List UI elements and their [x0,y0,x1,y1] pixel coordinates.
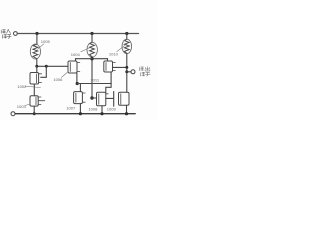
wire: mid horizontal 1006-1011 [76,58,108,60]
wire: 1006 drain bend [75,59,77,61]
transistor 1011 [104,59,116,72]
label 1005 [37,39,50,49]
ground terminal [11,112,15,116]
node: gate tap junction [45,65,48,68]
node: top rail / right branch junction [125,32,128,35]
wire: gate 1008 [92,97,97,99]
label 1006 [53,73,67,82]
transistor 1007 [74,92,86,104]
svg-text:1006: 1006 [53,77,63,82]
wire: right rail [126,53,128,92]
wire: bottom rail [15,113,135,115]
label 1003 [17,104,30,109]
wire: 1009 source [126,105,128,113]
resistor 1004 [87,42,97,57]
label 1010 [109,43,128,56]
svg-text:1007: 1007 [66,106,76,111]
label 1004 [71,48,90,58]
wire: 1008 to 1009 gate [106,97,114,99]
wire: 1008 source [101,106,103,114]
transistor 1003 [30,96,45,106]
node: top rail / left branch junction [35,32,38,35]
node: right rail / 1011 [125,66,128,69]
wire: gate tap to transistor 1002 [41,66,47,77]
transistor 1002 [30,73,42,85]
transistor 1009 gate bar [113,92,115,107]
node: left branch / input line [35,65,38,68]
svg-text:1005: 1005 [41,39,51,44]
node: top rail / middle branch junction [90,32,93,35]
wire: 1003 source to ground rail [33,106,35,114]
svg-text:1009: 1009 [107,107,117,112]
wire: 1007 drain [79,84,81,92]
svg-text:1011: 1011 [90,77,99,82]
wire: 1006 source down [76,73,78,84]
svg-text:1008: 1008 [88,106,98,111]
wire: drain feed transistor 1002 [36,66,38,72]
wire: middle branch to gate node [91,57,93,98]
node: right rail / output [125,70,128,73]
wire: 1002 source to 1003 drain [33,84,35,96]
node: 1003 source / rail [33,112,36,115]
input terminal label 输入端子 [1,29,11,38]
label 1002 [17,84,40,89]
node: resistor 1004 / mid wire [90,57,93,60]
svg-text:1010: 1010 [109,51,119,56]
node: 1007 source / rail [79,112,82,115]
node: 1008 source / rail [100,112,103,115]
transistor 1009 [119,92,130,105]
wire: mid-lower horizontal [77,83,111,85]
wire: top input rail [17,33,138,35]
wire: left branch lower [36,59,38,67]
resistor 1005 [30,44,40,59]
wire: 1007 source [79,104,81,114]
svg-text:1004: 1004 [71,52,81,57]
node: 1008 gate [90,96,93,99]
svg-text:1003: 1003 [17,104,27,109]
wire: input signal line [37,65,68,67]
wire: 1011 source down with jog to 1008 drain [106,72,111,92]
output terminal circle [131,70,135,74]
node: 1009 source / rail [125,112,128,115]
wire: to output terminal [127,71,131,73]
wire: right branch upper [126,34,128,40]
wire: middle branch upper [91,34,93,43]
resistor 1010 [122,39,132,53]
wire: 1011 to right rail [113,66,127,68]
wire: left branch upper [36,34,38,45]
output terminal label 输出端子 [139,67,150,77]
input terminal circle [14,32,18,36]
transistor 1008 [97,92,109,106]
node: 1006 source / mid-lower wire [76,82,79,85]
transistor 1006 [68,61,80,73]
